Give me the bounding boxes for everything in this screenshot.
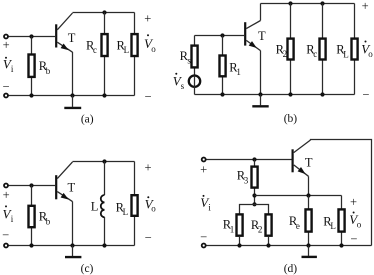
svg-text:(d): (d) — [284, 263, 298, 275]
wire emitter vertical (c) — [72, 202, 74, 246]
terminal input bottom (c) — [4, 244, 8, 248]
wire bottom rail (a) — [8, 95, 134, 97]
label Vo (c) — [145, 196, 157, 214]
node base junction (a) — [29, 34, 33, 38]
wire top rail (c) — [73, 161, 135, 163]
terminal input top (a) — [4, 35, 8, 39]
svg-text:2: 2 — [283, 49, 288, 59]
svg-text:T: T — [305, 156, 313, 170]
svg-text:−: − — [145, 231, 152, 245]
wire bottom rail (d) — [206, 245, 371, 247]
node L top (c) — [102, 159, 106, 163]
terminal input bottom (a) — [4, 94, 8, 98]
node emitter bottom (a) — [70, 93, 74, 97]
wire top rail (b) — [261, 3, 355, 5]
label Vi (c) — [3, 205, 14, 223]
transistor T (b) — [245, 21, 266, 51]
svg-text:+: + — [350, 195, 357, 209]
svg-text:1: 1 — [230, 224, 235, 234]
label Vi (d) — [200, 195, 211, 213]
resistor RL (a) — [117, 13, 138, 96]
svg-text:i: i — [11, 214, 14, 224]
resistor Rs (b) — [180, 36, 198, 76]
resistor R2 (b) — [276, 4, 294, 95]
label Vo (a) — [144, 34, 156, 54]
resistor R3 (d) — [237, 160, 258, 205]
svg-text:T: T — [258, 29, 266, 43]
svg-text:3: 3 — [244, 175, 249, 185]
label Vo (b) — [361, 41, 373, 60]
svg-text:−: − — [144, 89, 151, 103]
resistor Rc (b) — [306, 4, 325, 95]
svg-text:(b): (b) — [284, 113, 298, 125]
resistor Re (d) — [289, 196, 312, 246]
ground (d) — [302, 246, 317, 257]
svg-text:−: − — [200, 230, 207, 244]
terminal input top (c) — [4, 184, 8, 188]
terminal input bottom (d) — [202, 244, 206, 248]
wire bottom rail (c) — [8, 245, 134, 247]
transistor T (c) — [56, 162, 75, 202]
wire collector vertical (b) — [260, 4, 262, 21]
source Vs (b) — [173, 73, 200, 95]
svg-text:−: − — [2, 79, 9, 93]
node divider junction (d) — [252, 202, 256, 206]
svg-text:−: − — [362, 88, 369, 102]
svg-text:i: i — [11, 64, 14, 74]
svg-text:s: s — [181, 81, 185, 91]
svg-text:1: 1 — [236, 67, 241, 77]
wire input top (c) — [8, 185, 55, 187]
svg-text:c: c — [313, 49, 317, 59]
wire input top (a) — [8, 36, 55, 38]
label Vo (d) — [349, 212, 361, 230]
svg-text:(c): (c) — [81, 263, 94, 275]
svg-text:2: 2 — [258, 225, 263, 235]
svg-text:T: T — [68, 31, 76, 45]
wire input top (b) — [195, 35, 245, 37]
node Re bottom (d) — [306, 243, 310, 247]
resistor Rb (a) — [29, 37, 51, 96]
wire bottom rail (b) — [195, 94, 355, 96]
node RL bottom (d) — [339, 243, 343, 247]
svg-text:c: c — [93, 45, 97, 55]
inductor L (c) — [91, 162, 105, 246]
wire top rail (d) — [311, 140, 372, 246]
svg-text:b: b — [46, 216, 51, 226]
svg-text:+: + — [144, 12, 151, 26]
node emitter bottom (b) — [258, 92, 262, 96]
node base junction (c) — [29, 183, 33, 187]
resistor RL (d) — [323, 196, 344, 246]
node R3 bottom (d) — [252, 193, 256, 197]
svg-text:b: b — [46, 66, 51, 76]
svg-text:o: o — [151, 204, 156, 214]
resistor R1 (d) — [223, 214, 243, 245]
svg-text:+: + — [362, 0, 369, 13]
node Rc bottom (a) — [102, 93, 106, 97]
node Rc top (b) — [320, 1, 324, 5]
node Rb bottom (c) — [29, 243, 33, 247]
node R3 top (d) — [252, 157, 256, 161]
wire divider bracket (d) — [240, 205, 269, 214]
svg-text:L: L — [343, 49, 349, 59]
node emitter bottom (c) — [70, 243, 74, 247]
node R2 bottom (b) — [288, 92, 292, 96]
ground (b) — [252, 95, 268, 107]
resistor R1 (b) — [220, 36, 241, 95]
ground (c) — [65, 246, 81, 258]
svg-text:o: o — [368, 49, 373, 59]
svg-text:s: s — [187, 56, 191, 66]
svg-text:i: i — [208, 202, 211, 212]
svg-text:e: e — [296, 221, 300, 231]
wire top rail (a) — [73, 12, 135, 14]
svg-text:T: T — [68, 181, 76, 195]
svg-text:+: + — [3, 38, 10, 52]
label Vi (a) — [3, 57, 14, 75]
terminal input top (d) — [202, 158, 206, 162]
transistor T (a) — [56, 13, 76, 52]
wire mid rail (d) — [255, 195, 342, 197]
svg-text:L: L — [123, 207, 129, 217]
node R2 bottom (d) — [266, 243, 270, 247]
node R1 bottom (d) — [237, 243, 241, 247]
svg-text:L: L — [91, 199, 99, 213]
resistor Rb (c) — [29, 186, 51, 246]
node Rc top (a) — [102, 10, 106, 14]
svg-text:L: L — [330, 221, 336, 231]
ground (a) — [64, 96, 81, 108]
node R1 bottom (b) — [220, 92, 224, 96]
resistor RL (b) — [336, 4, 357, 95]
wire emitter vertical (d) — [308, 176, 310, 195]
svg-text:o: o — [357, 219, 362, 229]
svg-text:(a): (a) — [81, 113, 94, 125]
svg-text:−: − — [350, 232, 357, 246]
wire input top (d) — [206, 159, 291, 161]
node R2 top (b) — [288, 1, 292, 5]
resistor RL (c) — [116, 162, 138, 246]
svg-text:o: o — [151, 44, 156, 54]
node R1 top (b) — [220, 33, 224, 37]
node Rb bottom (a) — [29, 93, 33, 97]
svg-text:+: + — [3, 188, 10, 202]
wire emitter vertical (b) — [260, 51, 262, 95]
node L bottom (c) — [102, 243, 106, 247]
node Rc bottom (b) — [320, 92, 324, 96]
svg-text:−: − — [2, 228, 9, 242]
svg-text:+: + — [200, 163, 207, 177]
svg-text:+: + — [144, 161, 151, 175]
resistor R2 (d) — [251, 214, 272, 245]
resistor Rc (a) — [86, 13, 108, 96]
svg-text:L: L — [124, 45, 130, 55]
transistor T (d) — [293, 140, 313, 176]
wire emitter vertical (a) — [72, 52, 74, 96]
node emitter junction (d) — [306, 193, 310, 197]
